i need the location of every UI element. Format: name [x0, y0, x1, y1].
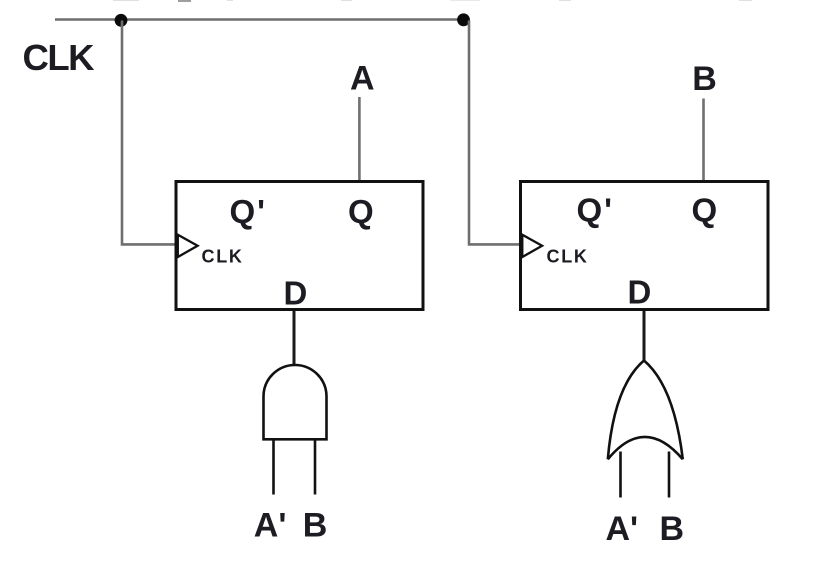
svg-text:A': A': [606, 510, 639, 548]
svg-text:Q: Q: [692, 192, 718, 229]
wire: clock drop to FF2: [469, 21, 520, 245]
wire: AND gate input leg left (A'): [272, 441, 275, 495]
svg-text:CLK: CLK: [202, 247, 244, 267]
node: clock junction dot 1: [115, 14, 128, 27]
svg-text:A: A: [350, 60, 375, 98]
flip-flop U1 (D flip-flop box): [176, 182, 423, 310]
svg-text:D: D: [628, 274, 652, 311]
wire: clock bus (top horizontal): [55, 18, 464, 21]
wire: D input of FF2 from OR gate: [643, 311, 646, 361]
wire: OR gate input leg left (A'): [619, 452, 622, 498]
svg-text:B: B: [692, 60, 717, 98]
svg-text:CLK: CLK: [547, 247, 589, 267]
svg-text:B: B: [303, 507, 328, 545]
svg-text:CLK: CLK: [23, 37, 96, 78]
AND gate G1: [264, 365, 327, 439]
flip-flop U1 clock input triangle: [178, 235, 198, 257]
wire: output B from FF2 Q: [702, 99, 705, 181]
svg-text:Q': Q': [230, 193, 268, 230]
wire: clock drop to FF1: [122, 21, 175, 245]
wire: AND gate input leg right (B): [314, 441, 317, 495]
wire: output A from FF1 Q: [358, 97, 361, 180]
svg-text:A': A': [254, 507, 287, 545]
OR gate G2: [608, 361, 683, 460]
svg-text:Q': Q': [577, 192, 615, 229]
flip-flop U2 (D flip-flop box): [521, 182, 769, 310]
node: clock junction dot 2: [457, 13, 470, 26]
wire: D input of FF1 from AND gate: [293, 311, 296, 366]
flip-flop U2 clock input triangle: [522, 235, 542, 257]
svg-text:B: B: [660, 510, 685, 548]
svg-text:D: D: [284, 274, 308, 311]
wire: OR gate input leg right (B): [668, 452, 671, 498]
decorative: cropped text remnants at top edge: [113, 0, 752, 2]
svg-text:Q: Q: [348, 193, 374, 230]
